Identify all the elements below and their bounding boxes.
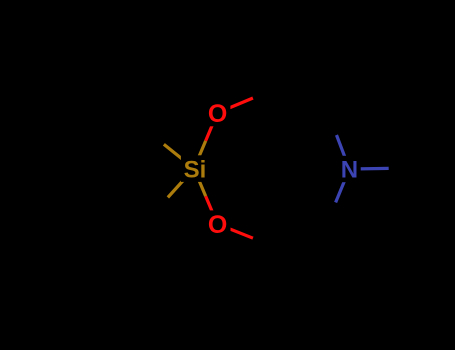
svg-text:O: O [208, 100, 227, 128]
svg-text:Si: Si [184, 156, 207, 183]
wire O top-CH2 bond (C half) [253, 83, 289, 98]
label halo Si [181, 155, 208, 182]
wire O top-CH2 bond (O half) [217, 98, 253, 113]
wire Si-methyl upper bond (C half) [134, 120, 164, 144]
wire CH2-N upper bond (N half) [337, 135, 350, 169]
wire CH2-CH2 bottom bond [289, 236, 322, 252]
wire N-methyl bond (C half) [389, 166, 426, 170]
wire O bottom-CH2 bond (O half) [217, 224, 253, 238]
wire O bottom-CH2 bond (C half) [253, 238, 289, 252]
wire Si-O top bond (O half) [206, 113, 218, 141]
wire CH2-N upper bond (C half) [324, 101, 337, 135]
wire Si-O bottom bond (Si half) [194, 169, 206, 197]
wire N-CH2 lower bond (N half) [336, 169, 350, 203]
wire N-CH2 lower bond (C half) [322, 203, 336, 237]
svg-text:O: O [208, 211, 227, 239]
svg-text:N: N [341, 156, 358, 183]
label halo O bottom [204, 210, 230, 237]
wire Si-methyl lower bond (C half) [142, 198, 168, 227]
wire CH2-CH2 top bond [289, 83, 324, 101]
wire Si-methyl upper bond (Si half) [164, 144, 194, 168]
wire Si-O top bond (Si half) [194, 141, 206, 169]
label halo O top [204, 99, 230, 126]
wire Si-O bottom bond (O half) [206, 196, 218, 224]
wire N-methyl bond (N half) [349, 167, 388, 171]
label halo N [338, 156, 361, 182]
wire Si-methyl lower bond (Si half) [168, 169, 194, 198]
